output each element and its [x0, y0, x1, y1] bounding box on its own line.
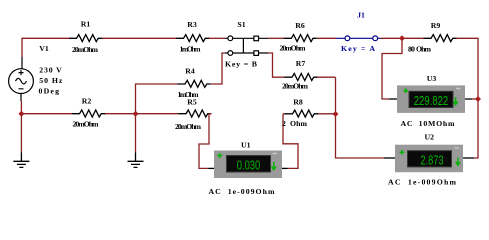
resistor R9 — [424, 35, 457, 42]
resistor R6 — [284, 35, 317, 42]
wire: J1 to R9 through junction — [380, 37, 423, 39]
svg-text:2.873: 2.873 — [420, 153, 443, 168]
resistor R8 — [285, 110, 318, 117]
wire: U1 left pin (black) — [209, 167, 215, 169]
ammeter U2 — [395, 145, 463, 173]
node: junction top rail / voltmeter branch — [399, 35, 405, 41]
resistor R1 — [69, 35, 102, 42]
node: junction at U3 right terminal — [475, 96, 481, 102]
wire: S1 lower-right contact down to R7 — [268, 53, 285, 77]
svg-text:AC 10MOhm: AC 10MOhm — [401, 119, 456, 128]
wire: R4 left to junction column — [136, 84, 178, 114]
resistor R5 — [136, 113, 179, 115]
resistor R7 — [285, 74, 318, 81]
svg-text:20mOhm: 20mOhm — [72, 45, 99, 54]
svg-text:AC 1e-009Ohm: AC 1e-009Ohm — [209, 187, 276, 196]
svg-text:50 Hz: 50 Hz — [39, 76, 63, 85]
wire: U3 left pin (black) — [390, 98, 398, 100]
svg-text:U3: U3 — [427, 74, 437, 83]
svg-text:R4: R4 — [185, 67, 195, 76]
wire: R6 to J1 — [317, 37, 336, 39]
svg-text:20mOhm: 20mOhm — [282, 82, 309, 91]
ground 1 — [20, 114, 22, 153]
wire: S1 to R6 — [268, 37, 284, 39]
voltmeter U3 — [397, 85, 465, 113]
wire: S1 lower-left contact down to R4 — [211, 53, 226, 84]
node: junction R8 right / vertical — [333, 111, 339, 117]
svg-text:J1: J1 — [357, 11, 365, 20]
svg-text:R6: R6 — [295, 21, 305, 30]
resistor R3 — [176, 35, 209, 42]
svg-text:R5: R5 — [187, 98, 197, 107]
svg-text:U2: U2 — [425, 133, 435, 142]
wire: R2 to center junction — [105, 113, 136, 115]
node: junction V1 bottom / R2 / ground — [18, 111, 24, 117]
wire: top-left vertical from V1 to top rail — [21, 38, 23, 57]
wire: R7 right to vertical — [318, 76, 336, 78]
wire: R3 to S1 — [209, 37, 225, 39]
svg-text:U1: U1 — [241, 140, 251, 149]
resistor R2 — [72, 110, 105, 117]
svg-text:V1: V1 — [39, 44, 49, 53]
resistor R4 — [178, 80, 211, 87]
wire: R8 left down-around to U1 right terminal — [283, 114, 298, 169]
wire: U2 left pin (black) — [384, 157, 395, 159]
wire: V1 bottom pin — [20, 94, 22, 102]
svg-text:R7: R7 — [296, 59, 306, 68]
switch S1 (DPST) — [225, 36, 268, 56]
svg-text:R9: R9 — [431, 21, 441, 30]
svg-text:R8: R8 — [293, 98, 303, 107]
svg-text:0Deg: 0Deg — [39, 87, 60, 96]
svg-text:20mOhm: 20mOhm — [175, 122, 202, 131]
svg-text:S1: S1 — [237, 20, 245, 29]
svg-text:R3: R3 — [187, 20, 197, 29]
ammeter U1 — [214, 151, 282, 179]
svg-text:1mOhm: 1mOhm — [180, 45, 202, 54]
svg-text:0.030: 0.030 — [237, 157, 261, 172]
wire: U2 right pin (black) — [463, 157, 474, 159]
wire: R9 to right edge and down to meters — [457, 38, 479, 158]
svg-text:80 Ohm: 80 Ohm — [408, 45, 432, 54]
svg-text:R2: R2 — [82, 97, 92, 106]
wire: R5 right down to U1 left terminal — [199, 114, 212, 169]
wire: V1 top pin (black) — [21, 57, 23, 69]
svg-text:Key = A: Key = A — [341, 44, 375, 53]
switch J1 (SPST, blue) — [336, 36, 380, 41]
wire: R8 right to junction — [318, 113, 336, 115]
svg-text:20mOhm: 20mOhm — [280, 44, 307, 53]
node: junction R2/R4/R5/ground2 — [133, 111, 139, 117]
svg-text:AC 1e-009Ohm: AC 1e-009Ohm — [388, 177, 457, 186]
svg-text:229.822: 229.822 — [414, 93, 449, 108]
AC source V1 — [9, 69, 34, 94]
wire: R7/R8 node down to U2 left terminal — [336, 77, 385, 158]
svg-text:Key = B: Key = B — [225, 59, 257, 68]
svg-text:R1: R1 — [81, 20, 91, 29]
wire: voltmeter branch J1-node down-left to U3 left terminal — [382, 38, 402, 99]
svg-text:2 Ohm: 2 Ohm — [282, 119, 308, 128]
wire: V1 bottom to ground node — [20, 101, 22, 114]
wire: top rail corner to R1 — [21, 37, 69, 39]
wire: R1 to R3 — [102, 37, 176, 39]
wire: U3 right pin (black) and red to junction — [465, 98, 472, 100]
wire: node to R2 — [21, 113, 72, 115]
svg-text:20mOhm: 20mOhm — [73, 120, 100, 129]
wire: U1 right pin (black) — [282, 167, 288, 169]
svg-text:230 V: 230 V — [39, 66, 62, 75]
ground 2 — [135, 114, 137, 153]
